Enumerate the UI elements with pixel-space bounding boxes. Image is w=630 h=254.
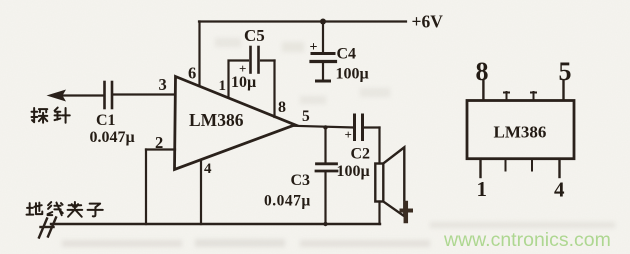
svg-text:C5: C5 [244, 26, 265, 45]
svg-text:LM386: LM386 [494, 123, 547, 142]
DIP pin 2 lead [505, 159, 507, 171]
svg-text:C2: C2 [351, 146, 371, 163]
DIP pin 5 lead [562, 81, 564, 101]
svg-text:10µ: 10µ [231, 74, 256, 91]
DIP pin 3 lead [531, 159, 533, 171]
capacitor C5 labels [231, 26, 265, 91]
svg-text:1: 1 [477, 177, 488, 201]
pin 6 label [188, 64, 196, 83]
capacitor C2 labels [337, 127, 371, 180]
pin 1 label [219, 78, 227, 94]
probe arrow head [47, 90, 67, 102]
capacitor C4 (electrolytic to +6V) [311, 22, 336, 82]
speaker terminal mark [400, 203, 414, 221]
probe label (Chinese: tan zhen) [32, 108, 70, 123]
speaker LS1 [375, 147, 404, 216]
svg-text:8: 8 [476, 57, 489, 86]
DIP pin 6 lead [531, 92, 536, 100]
node: output junction dot [323, 125, 327, 129]
faint page ghosting [62, 38, 615, 247]
DIP pin 8 lead [482, 81, 484, 101]
DIP-8 package LM386 outline [467, 101, 574, 159]
svg-text:C4: C4 [337, 46, 357, 63]
svg-text:C3: C3 [291, 172, 311, 189]
DIP pin 7 lead [504, 92, 509, 100]
wire: pin 2 to ground [146, 150, 175, 225]
op-amp U1 LM386 triangle [175, 77, 296, 170]
svg-text:0.047µ: 0.047µ [90, 129, 135, 146]
svg-text:4: 4 [204, 161, 212, 177]
svg-text:3: 3 [159, 75, 167, 94]
wire: input to pin 3 [59, 95, 175, 96]
ground clip symbol [39, 218, 56, 238]
capacitor C1 value labels [90, 112, 135, 146]
capacitor C3 labels [264, 172, 311, 210]
ground rail wire [51, 223, 380, 225]
DIP pin number labels [476, 57, 489, 86]
capacitor C5 [251, 47, 259, 73]
wire: C5 loop pin 1 to pin 8 [229, 61, 275, 118]
op-amp label LM386 [189, 110, 244, 130]
svg-text:+: + [310, 40, 318, 55]
DIP pin 4 lead [558, 159, 560, 177]
wire: speaker to ground [378, 202, 380, 225]
pin 3 label [159, 75, 167, 94]
pin 5 label [302, 108, 310, 125]
svg-text:5: 5 [559, 57, 572, 86]
watermark www.cntronics.com [443, 229, 611, 251]
wire: pin 4 to ground [200, 160, 202, 224]
wire: pin 5 output [295, 126, 354, 128]
svg-text:LM386: LM386 [189, 110, 244, 130]
capacitor C3 to ground [316, 128, 337, 225]
svg-text:2: 2 [155, 133, 163, 152]
capacitor C4 labels [310, 40, 369, 83]
svg-text:6: 6 [188, 64, 196, 83]
ground clip label (Chinese: di xian jia zi) [27, 202, 103, 217]
DIP pin 1 lead [479, 159, 481, 177]
DIP package label LM386 [494, 123, 547, 142]
svg-text:1: 1 [219, 78, 227, 94]
svg-text:+: + [345, 127, 352, 142]
svg-text:C1: C1 [96, 112, 116, 129]
node: C3 ground junction dot [323, 222, 327, 226]
wire: pin 6 to top rail [198, 22, 200, 86]
pin 4 label [204, 161, 212, 177]
+6V supply label [412, 12, 444, 32]
pin 8 label [278, 99, 286, 116]
svg-text:100µ: 100µ [336, 66, 369, 83]
svg-text:www.cntronics.com: www.cntronics.com [443, 229, 611, 251]
node: V+ rail junction dot [320, 19, 326, 25]
svg-text:4: 4 [554, 178, 565, 202]
capacitor C1 [105, 82, 113, 108]
wire: +6V top supply rail [199, 20, 406, 22]
svg-text:+6V: +6V [412, 12, 444, 32]
svg-text:8: 8 [278, 99, 286, 116]
capacitor C2 (output electrolytic) [355, 115, 363, 140]
svg-text:5: 5 [302, 108, 310, 125]
wire: C2 to speaker [364, 128, 380, 164]
svg-text:100µ: 100µ [337, 163, 370, 180]
svg-text:0.047µ: 0.047µ [264, 193, 311, 210]
pin 2 label [155, 133, 163, 152]
